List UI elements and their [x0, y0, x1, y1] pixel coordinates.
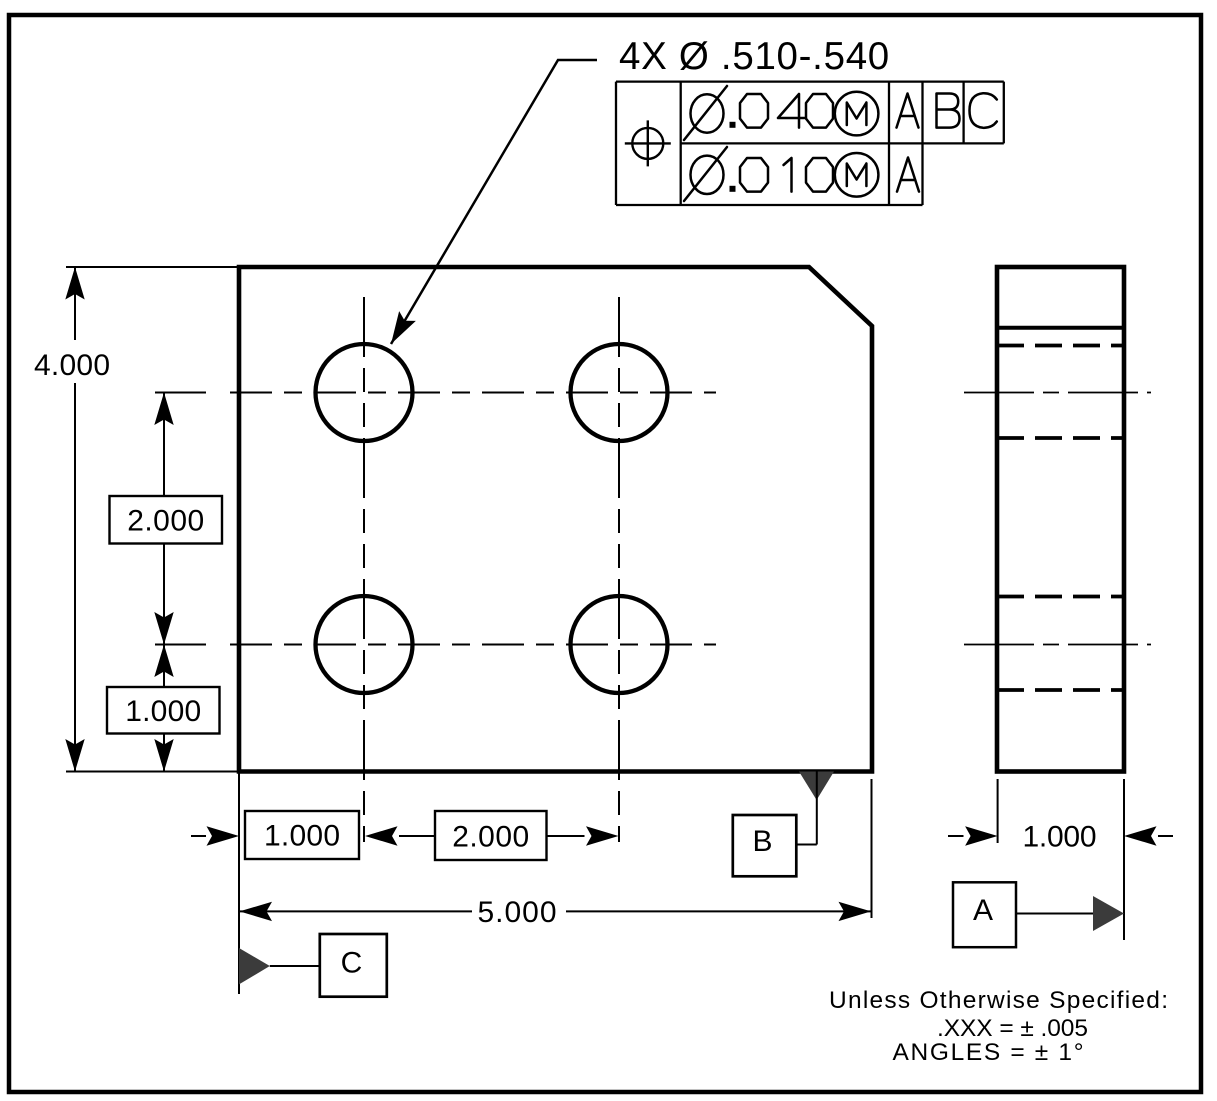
datum B stem	[796, 772, 817, 845]
svg-text:4X Ø .510-.540: 4X Ø .510-.540	[619, 35, 890, 78]
horizontal centerline top holes	[230, 392, 716, 394]
side view outline	[997, 267, 1124, 772]
position symbol	[625, 120, 671, 166]
datum A box	[953, 882, 1016, 947]
svg-text:ANGLES = ± 1°: ANGLES = ± 1°	[893, 1039, 1084, 1066]
hole top-left	[316, 344, 413, 441]
extension line bottom (4.000)	[66, 771, 240, 773]
leader arrowhead	[383, 311, 416, 349]
svg-text:1.000: 1.000	[1023, 821, 1097, 854]
svg-text:4.000: 4.000	[34, 349, 110, 382]
horizontal centerline bottom holes	[230, 644, 716, 646]
extension line left of plate (5.000 / datum C)	[238, 772, 240, 995]
side extension line right	[1123, 779, 1125, 940]
datum B triangle	[799, 772, 834, 801]
svg-text:C: C	[341, 947, 363, 980]
extension line right of plate (5.000)	[871, 779, 873, 918]
feature control frame borders	[616, 82, 1004, 205]
extension stub top hole centerline	[155, 392, 206, 394]
svg-text:2.000: 2.000	[127, 504, 204, 537]
vertical centerline right holes	[618, 297, 620, 842]
svg-text:Unless Otherwise Specified:: Unless Otherwise Specified:	[829, 987, 1168, 1014]
svg-text:B: B	[752, 825, 772, 858]
side dim 1.000 right arrow	[1158, 835, 1173, 837]
svg-text:5.000: 5.000	[478, 896, 557, 929]
svg-text:2.000: 2.000	[452, 821, 529, 854]
datum C triangle	[239, 948, 270, 984]
hidden line hole1 top	[997, 344, 1124, 348]
side view centerline hole2	[964, 644, 1151, 646]
datum C stem	[270, 965, 321, 967]
dim 2.000 bottom box	[435, 811, 547, 860]
datum B box	[733, 815, 797, 876]
datum A stem	[1016, 913, 1093, 915]
svg-text:1.000: 1.000	[125, 695, 201, 728]
dim 1.000 line (left)	[163, 645, 165, 772]
vertical centerline left holes	[363, 297, 365, 842]
FCF row1 dot	[730, 122, 736, 128]
dim 2.000 line	[163, 393, 165, 645]
dim 1.000 bottom: outside arrow left	[191, 835, 206, 837]
side dim 1.000 left arrow	[948, 835, 964, 837]
FCF row1: dia .040 M A B C	[684, 86, 997, 140]
hidden line hole2 top	[997, 595, 1124, 599]
hole bottom-right	[571, 596, 668, 693]
dim 5.000 line	[240, 910, 872, 912]
side view centerline hole1	[964, 392, 1151, 394]
hidden line hole2 bottom	[997, 688, 1124, 692]
FCF row2 dot	[730, 186, 736, 192]
leader line to hole	[391, 60, 597, 344]
dim 4.000 line	[74, 267, 76, 772]
dim 2.000 bottom: arrow pointing left at hole centerline	[365, 826, 398, 845]
extension line top (4.000)	[66, 266, 240, 268]
FCF row2: dia .010 M A	[684, 147, 919, 201]
hidden line hole1 bottom	[997, 436, 1124, 440]
side extension line left	[997, 779, 999, 843]
hole bottom-left	[316, 596, 413, 693]
hole top-right	[571, 344, 668, 441]
plate outline (front view)	[239, 267, 872, 772]
datum C box	[320, 934, 387, 997]
dim 1.000 box (left)	[107, 687, 220, 734]
dim 2.000 box	[110, 496, 223, 544]
extension stub bottom hole centerline	[155, 644, 206, 646]
wire to 2.000 box	[399, 835, 435, 837]
svg-text:1.000: 1.000	[264, 820, 340, 853]
side view chamfer edge	[997, 326, 1124, 330]
svg-text:.XXX = ± .005: .XXX = ± .005	[937, 1015, 1088, 1042]
dim 2.000 bottom: line + arrow pointing right	[547, 835, 585, 837]
datum A triangle	[1093, 896, 1124, 931]
dim 1.000 bottom box	[245, 811, 359, 859]
svg-text:A: A	[973, 894, 993, 927]
